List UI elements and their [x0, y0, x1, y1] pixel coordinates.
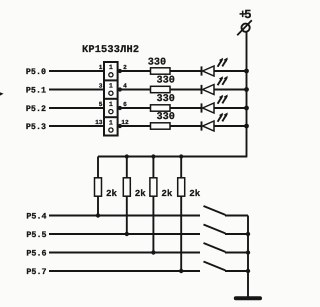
svg-text:4: 4: [123, 83, 127, 90]
wire P5.7 to switch S4: [49, 270, 200, 272]
svg-text:6: 6: [123, 101, 127, 108]
resistor R5 2k body: [95, 178, 102, 196]
junction dot at DD1 output pin 12: [118, 124, 122, 128]
svg-text:5: 5: [99, 101, 103, 108]
wire R2 to LED VD2: [170, 89, 202, 91]
resistor R8 2k body: [178, 178, 185, 196]
svg-text:+5: +5: [239, 8, 252, 22]
svg-text:P5.1: P5.1: [26, 86, 46, 96]
wire rail to R6 top: [126, 157, 128, 178]
junction dot at DD1 output pin 4: [118, 87, 122, 91]
svg-text:1: 1: [109, 64, 113, 71]
junction dot at DD1 output pin 6: [118, 106, 122, 110]
junction dot ground rail / S3: [246, 250, 250, 254]
wire R3 to LED VD3: [170, 107, 202, 109]
switch S2 blade: [204, 225, 226, 234]
scan artifact mark left edge: [0, 92, 4, 95]
switch S1 blade: [204, 206, 226, 215]
wire P5.2 to DD1 input pin 5: [49, 107, 104, 109]
junction dot R6 / port row: [125, 232, 129, 236]
junction dot rail / R8: [179, 154, 183, 158]
LED VD3 cathode bar: [201, 103, 203, 112]
LED VD4 cathode bar: [201, 121, 203, 130]
wire LED VD2 anode to +5 rail: [214, 89, 247, 91]
LED VD2 triangle: [203, 85, 214, 95]
junction dot ground rail / S2: [246, 232, 250, 236]
wire P5.3 to DD1 input pin 13: [49, 125, 104, 127]
wire switch S1 to ground rail: [225, 215, 248, 217]
resistor R6 2k body: [123, 178, 130, 196]
svg-text:330: 330: [157, 112, 175, 123]
svg-text:1: 1: [109, 101, 113, 108]
wire R8 bottom to row: [180, 196, 182, 271]
svg-text:P5.5: P5.5: [26, 230, 46, 240]
op-amp / inverter IC DD1 body: [104, 62, 118, 136]
wire DD1 output pin 6 to resistor R3: [118, 107, 151, 109]
svg-text:P5.3: P5.3: [26, 122, 46, 132]
ground symbol: [236, 296, 260, 300]
wire rail to R7 top: [152, 157, 154, 178]
wire LED VD3 anode to +5 rail: [214, 107, 247, 109]
LED VD4 emission arrows: [218, 114, 223, 122]
svg-text:P5.6: P5.6: [26, 249, 46, 259]
junction dot ground rail / S4: [246, 269, 250, 273]
junction dot at DD1 output pin 2: [118, 69, 122, 73]
svg-text:1: 1: [109, 83, 113, 90]
wire switch S4 to ground rail: [225, 270, 248, 272]
junction dot rail / R7: [151, 154, 155, 158]
svg-text:P5.7: P5.7: [26, 267, 46, 277]
wire DD1 output pin 2 to resistor R1: [118, 70, 151, 72]
switch S3 blade: [204, 243, 226, 252]
resistor R4 330 body: [151, 123, 171, 129]
junction dot on +5 rail row 1: [244, 69, 249, 74]
wire rail to R5 top: [97, 157, 99, 178]
svg-text:2k: 2k: [135, 188, 147, 199]
wire pull-up supply rail: [98, 156, 247, 158]
wire LED VD1 anode to +5 rail: [214, 70, 247, 72]
wire LED VD4 anode to +5 rail: [214, 125, 247, 127]
svg-text:P5.0: P5.0: [26, 67, 46, 77]
svg-text:2k: 2k: [189, 188, 201, 199]
wire R4 to LED VD4: [170, 125, 202, 127]
switch S4 blade: [204, 262, 226, 271]
wire R5 bottom to row: [97, 196, 99, 215]
wire R1 to LED VD1: [170, 70, 202, 72]
junction dot R5 / port row: [96, 213, 100, 217]
resistor R7 2k body: [150, 178, 157, 196]
wire switch S2 to ground rail: [225, 233, 248, 235]
svg-text:P5.2: P5.2: [26, 104, 46, 114]
wire DD1 output pin 12 to resistor R4: [118, 125, 151, 127]
svg-text:2k: 2k: [106, 188, 118, 199]
svg-text:P5.4: P5.4: [26, 212, 46, 222]
svg-text:1: 1: [109, 119, 113, 126]
LED VD1 emission arrows: [218, 59, 223, 67]
svg-text:330: 330: [148, 57, 166, 68]
wire R7 bottom to row: [152, 196, 154, 252]
LED VD3 triangle: [203, 103, 214, 113]
junction dot on +5 rail row 3: [244, 106, 249, 111]
svg-text:330: 330: [157, 94, 175, 105]
junction dot on +5 rail row 2: [244, 87, 249, 92]
wire P5.4 to switch S1: [49, 215, 200, 217]
resistor R2 330 body: [151, 86, 171, 92]
svg-text:330: 330: [157, 76, 175, 87]
inverter DD1.4 output inversion circle: [109, 128, 113, 132]
svg-text:2: 2: [123, 64, 127, 71]
resistor R1 330 body: [151, 68, 171, 74]
svg-text:13: 13: [95, 119, 103, 126]
LED VD4 triangle: [203, 121, 214, 131]
junction dot R7 / port row: [151, 250, 155, 254]
svg-text:2k: 2k: [161, 188, 173, 199]
svg-text:12: 12: [121, 119, 129, 126]
LED VD1 triangle: [203, 66, 214, 76]
inverter DD1.3 output inversion circle: [109, 110, 113, 114]
LED VD2 cathode bar: [201, 85, 203, 94]
+5 terminal (circle with slash): [242, 24, 250, 32]
svg-text:1: 1: [99, 64, 103, 71]
junction dot rail / R6: [125, 154, 129, 158]
wire rail to R8 top: [180, 157, 182, 178]
wire P5.5 to switch S2: [49, 233, 200, 235]
wire P5.6 to switch S3: [49, 252, 200, 254]
LED VD3 emission arrows: [218, 96, 223, 104]
resistor R3 330 body: [151, 105, 171, 111]
wire switch S3 to ground rail: [225, 252, 248, 254]
wire P5.1 to DD1 input pin 3: [49, 89, 104, 91]
wire DD1 output pin 4 to resistor R2: [118, 89, 151, 91]
inverter DD1.2 output inversion circle: [109, 91, 113, 95]
LED VD1 cathode bar: [201, 66, 203, 75]
wire P5.0 to DD1 input pin 1: [49, 70, 104, 72]
wire R6 bottom to row: [126, 196, 128, 234]
inverter DD1.1 output inversion circle: [109, 73, 113, 77]
wire common ground rail: [247, 216, 249, 297]
junction dot R8 / port row: [179, 269, 183, 273]
wire +5 vertical rail: [246, 32, 248, 157]
junction dot on +5 rail row 4: [244, 124, 249, 129]
svg-text:3: 3: [99, 83, 103, 90]
svg-text:КР1533ЛН2: КР1533ЛН2: [82, 44, 139, 56]
LED VD2 emission arrows: [218, 78, 223, 86]
